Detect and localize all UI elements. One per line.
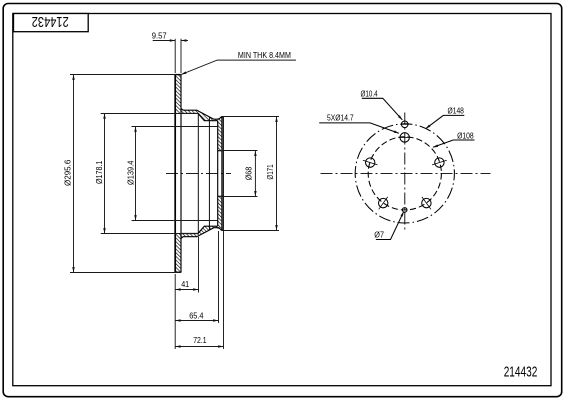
- dim texts left view: [64, 31, 292, 345]
- svg-text:41: 41: [181, 280, 189, 289]
- svg-text:Ø171: Ø171: [266, 164, 275, 180]
- plate top edge: [175, 74, 181, 76]
- arrows for left dims: [72, 39, 278, 348]
- flange lip bottom: [221, 229, 223, 231]
- arrow leader Ø108: [432, 144, 438, 148]
- arrow leader Ø148: [425, 125, 431, 130]
- leader 5XØ14.7: [319, 123, 399, 133]
- arrow dim Ø171 bottom: [275, 225, 278, 230]
- vertical centerline: [404, 111, 406, 230]
- hole Ø7 bottom: [402, 208, 407, 213]
- flange back face: [217, 121, 219, 227]
- flange front face: [221, 117, 223, 230]
- dim Ø178.1: [101, 113, 199, 115]
- dim 41 / 65.4 / 72.1 extension lines: [174, 274, 176, 349]
- svg-text:Ø148: Ø148: [448, 107, 465, 116]
- arrow dim Ø295.6 bottom: [72, 267, 75, 272]
- leader Ø10.4: [362, 98, 403, 120]
- arrow dim 41 right: [193, 288, 198, 291]
- svg-text:MIN THK 8.4MM: MIN THK 8.4MM: [238, 51, 291, 60]
- svg-text:214432: 214432: [504, 364, 538, 380]
- dim Ø171: [222, 116, 280, 118]
- arrow dim 65.4 right: [213, 319, 218, 322]
- flange face outer edge: [222, 117, 224, 230]
- hat step hatched top: [181, 110, 222, 121]
- arrow dim Ø178.1 top: [103, 113, 106, 118]
- hat edge line A: [197, 113, 199, 233]
- svg-text:Ø7: Ø7: [374, 230, 384, 239]
- disc plate hatched top: [175, 75, 181, 114]
- svg-text:Ø10.4: Ø10.4: [361, 89, 379, 98]
- svg-text:Ø68: Ø68: [245, 166, 254, 180]
- svg-text:Ø139.4: Ø139.4: [126, 160, 135, 185]
- arrow dim 9.57 left: [170, 39, 175, 42]
- arrow dim Ø171 top: [275, 117, 278, 122]
- svg-text:5XØ14.7: 5XØ14.7: [327, 114, 354, 123]
- arrow dim Ø178.1 bottom: [103, 228, 106, 233]
- svg-text:Ø108: Ø108: [457, 131, 474, 140]
- arrow dim Ø139.4 bottom: [134, 215, 137, 220]
- arrow leader Ø7: [400, 211, 405, 217]
- arrow dim 72.1 left: [175, 345, 180, 348]
- svg-text:9.57: 9.57: [152, 31, 167, 40]
- step inner top: [181, 113, 218, 120]
- leader arrows right view: [181, 71, 439, 216]
- dim 9.57: [174, 39, 176, 73]
- hole Ø10.4 top: [401, 121, 408, 128]
- dim 41: [175, 289, 199, 291]
- arrow dim 41 left: [175, 288, 180, 291]
- svg-text:Ø295.6: Ø295.6: [64, 159, 73, 186]
- step outer bottom: [181, 228, 223, 239]
- arrow dim 72.1 right: [218, 345, 223, 348]
- arrow dim 65.4 left: [175, 319, 180, 322]
- bolt hole upper-left: [366, 158, 375, 167]
- plate right face: [180, 75, 182, 273]
- right view texts: [327, 89, 474, 239]
- bolt hole lower-right: [422, 198, 431, 207]
- bore top surface: [218, 150, 224, 152]
- arrow dim Ø68 bottom: [254, 191, 257, 196]
- arrow leader Ø10.4: [398, 115, 403, 121]
- bolt hole lower-left: [379, 198, 388, 207]
- dim 72.1: [175, 346, 223, 348]
- arrow dim Ø68 top: [254, 151, 257, 156]
- dim Ø139.4: [132, 126, 218, 128]
- flange lip top: [221, 116, 223, 118]
- outer circle Ø148: [355, 124, 454, 223]
- arrow leader 5XØ14.7: [394, 130, 400, 134]
- dim Ø295.6: [70, 74, 175, 76]
- flange hatched top: [218, 118, 222, 151]
- leader Ø148: [426, 115, 464, 128]
- step outer top: [181, 109, 223, 120]
- svg-text:72.1: 72.1: [193, 336, 207, 345]
- disc plate hatched bottom: [175, 234, 181, 273]
- flange hatched bottom: [218, 196, 222, 229]
- bolt hole upper-right: [435, 158, 444, 167]
- bore bottom surface: [218, 195, 224, 197]
- section centerline axis: [166, 172, 231, 174]
- dim Ø68: [219, 150, 258, 152]
- arrow leader MIN THK: [181, 71, 187, 75]
- hat edge line B: [208, 117, 210, 230]
- leader MIN THK: [181, 60, 296, 75]
- svg-text:214432: 214432: [32, 13, 69, 29]
- svg-text:65.4: 65.4: [189, 311, 204, 320]
- bolt circle Ø108: [368, 137, 441, 210]
- hat step hatched bottom: [181, 226, 222, 237]
- arrow dim Ø139.4 top: [134, 127, 137, 132]
- plate left face: [174, 75, 176, 273]
- part number box top-left: [14, 14, 89, 32]
- dim 65.4: [175, 320, 219, 322]
- plate bottom edge: [175, 271, 181, 273]
- arrow dim Ø295.6 top: [72, 75, 75, 80]
- leader Ø7: [376, 212, 404, 240]
- step inner bottom: [181, 226, 218, 233]
- horizontal centerline: [321, 172, 491, 174]
- leader Ø108: [433, 140, 475, 147]
- svg-text:Ø178.1: Ø178.1: [95, 160, 104, 184]
- bolt hole top: [400, 133, 409, 142]
- arrow dim 9.57 right: [181, 39, 186, 42]
